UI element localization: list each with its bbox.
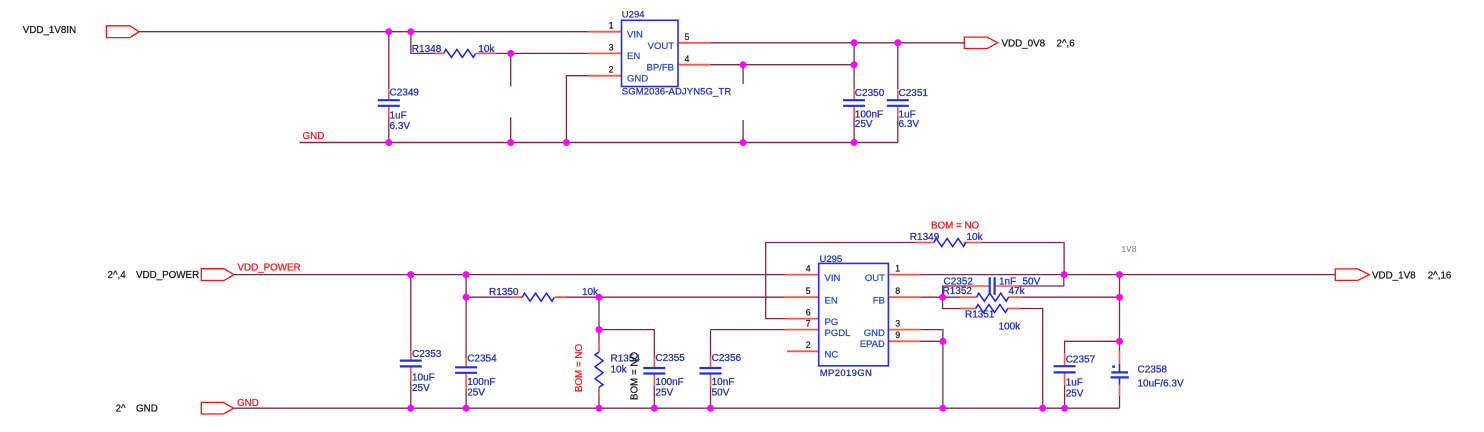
svg-text:C2349: C2349 [390,87,420,98]
wire VOUT to port [710,42,964,44]
junction hidden cap bottom on GND rail [507,139,514,146]
junction EPAD wire on GND rail [939,405,946,412]
svg-text:C2352: C2352 [944,276,974,287]
port VDD_0V8 [964,37,997,48]
svg-text:2^,6: 2^,6 [1057,39,1076,50]
svg-text:U295: U295 [820,254,843,265]
pin 9 stub U295 [888,340,919,342]
wire R1352 to output column [1022,296,1120,298]
capacitor C2357 [1054,353,1096,408]
junction FB node [939,294,946,301]
svg-text:GND: GND [237,398,259,409]
resistor R1354 [595,330,640,409]
junction R1354 bottom on GND rail [596,405,603,412]
svg-text:C2356: C2356 [712,353,742,364]
svg-text:25V: 25V [855,119,873,130]
svg-text:VOUT: VOUT [648,41,675,52]
junction R1351 wire on GND rail [1039,405,1046,412]
junction C2355 bottom on GND rail [651,405,658,412]
svg-text:5: 5 [806,286,811,296]
svg-text:R1350: R1350 [489,287,519,298]
svg-text:6.3V: 6.3V [390,121,411,132]
wire C2351 column [897,43,899,143]
junction C2356 bottom on GND rail [707,405,714,412]
svg-text:NC: NC [825,350,839,361]
junction C2353 bottom on GND rail [407,405,414,412]
pin 8 stub U295 [888,296,921,298]
svg-text:C2351: C2351 [899,88,929,99]
svg-text:25V: 25V [467,387,485,398]
pin 3 stub U294 [589,52,622,54]
svg-text:10k: 10k [967,232,984,243]
svg-text:R1351: R1351 [965,310,995,321]
wire VDD_POWER to U295 VIN [234,274,785,276]
svg-text:BP/FB: BP/FB [647,63,674,74]
svg-text:C2353: C2353 [412,349,442,360]
svg-text:EPAD: EPAD [860,339,885,350]
svg-text:C2357: C2357 [1066,354,1096,365]
junction hidden cap 2 bottom on GND rail [740,139,747,146]
svg-text:1uF: 1uF [390,110,407,121]
junction GND EPAD node [939,338,946,345]
wire OUT to port VDD_1V8 [921,274,1335,276]
wire C2356 column [710,330,712,409]
svg-text:GND: GND [864,328,885,339]
wire branch down to R1348 [411,32,435,54]
wire C2350 column [853,65,855,143]
wire R1350 to EN pin [599,296,785,298]
svg-text:50V: 50V [712,387,730,398]
svg-text:6.3V: 6.3V [899,119,920,130]
svg-text:PGDL: PGDL [825,328,851,339]
svg-text:BOM = NO: BOM = NO [931,221,980,232]
junction on BP/FB net at hidden cap branch [740,61,747,68]
svg-text:VDD_1V8IN: VDD_1V8IN [23,25,76,36]
svg-text:VIN: VIN [825,273,841,284]
wire EPAD node to rail [920,341,943,408]
resistor R1350 [466,287,599,301]
wire gapped vertical below BP/FB [742,65,744,143]
svg-text:1: 1 [895,263,900,273]
svg-text:VDD_POWER: VDD_POWER [238,262,301,273]
svg-text:10k: 10k [611,365,628,376]
svg-text:2^: 2^ [116,404,126,415]
resistor R1348 [412,44,496,58]
wire C2356 to PGDL [711,329,786,331]
svg-text:VIN: VIN [627,29,643,40]
junction R1350 output on EN net [596,294,603,301]
pin 7 stub U295 [785,329,818,331]
wire PG riser to R1349 [766,243,916,319]
capacitor C2354 [455,354,497,399]
svg-text:R1348: R1348 [412,44,442,55]
junction C2349 bottom on GND rail [385,139,392,146]
svg-text:7: 7 [806,318,811,328]
pin 1 stub U294 [589,31,622,33]
junction at C2351 top on VOUT net [894,39,901,46]
capacitor C2352 [943,275,1064,298]
wire R1349 to OUT node [982,243,1064,275]
op-amp U294 body [622,20,679,86]
junction at R1348 output on EN net [507,50,514,57]
svg-text:BOM = NO: BOM = NO [630,352,641,401]
svg-text:C2355: C2355 [655,353,685,364]
resistor R1349 [910,232,984,247]
svg-text:1uF: 1uF [1066,378,1083,389]
ground rail bottom [234,407,1120,409]
svg-text:3: 3 [609,42,614,52]
svg-text:FB: FB [873,296,885,307]
wire output branch to C2357 [1065,341,1120,353]
wire C2353 column [410,275,412,409]
svg-text:R1352: R1352 [943,286,973,297]
svg-text:R1349: R1349 [910,232,940,243]
wire C2354 column [465,275,467,409]
svg-text:10k: 10k [478,44,495,55]
pin 3 stub U295 [888,329,921,331]
svg-text:GND: GND [136,404,158,415]
svg-text:EN: EN [627,51,640,62]
regulator U295 body [819,263,889,365]
svg-text:2: 2 [806,340,811,350]
svg-text:1V8: 1V8 [1121,245,1137,255]
junction U294 GND pin wire on GND rail [563,139,570,146]
svg-text:BOM = NO: BOM = NO [574,344,585,393]
svg-text:VDD_POWER: VDD_POWER [136,270,199,281]
svg-text:5: 5 [685,32,690,42]
junction VOUT to BP/FB tie [851,39,858,46]
capacitor C2349 [378,87,420,132]
wire output column [1119,275,1121,351]
svg-text:C2358: C2358 [1138,365,1168,376]
svg-text:6: 6 [806,307,811,317]
capacitor C2355 [643,353,685,408]
svg-text:MP2019GN: MP2019GN [820,368,872,379]
svg-text:OUT: OUT [865,273,885,284]
svg-text:EN: EN [825,296,838,307]
pin 2 stub U295 (NC) [787,350,819,352]
wire to C2355 [599,330,654,357]
resistor R1352 [943,286,1026,301]
svg-text:VDD_0V8: VDD_0V8 [1002,39,1046,50]
svg-text:9: 9 [895,330,900,340]
svg-text:10uF: 10uF [412,373,435,384]
svg-text:10uF/6.3V: 10uF/6.3V [1138,378,1184,389]
junction R1350 tap on C2354 column [463,294,470,301]
svg-text:1: 1 [609,21,614,31]
capacitor C2358 (polarized) [1111,351,1184,408]
pin 5 stub U294 [678,42,710,44]
svg-text:2^,4: 2^,4 [108,270,127,281]
port VDD_POWER [201,269,234,281]
junction R1352 right on output column [1116,294,1123,301]
svg-text:2^,16: 2^,16 [1428,270,1452,281]
svg-text:47k: 47k [1009,286,1026,297]
junction at C2353 top on VDD_POWER net [407,271,414,278]
wire C2349 column [388,32,390,90]
junction at C2354 top on VDD_POWER net [463,271,470,278]
svg-text:C2354: C2354 [467,354,497,365]
svg-text:2: 2 [609,65,614,75]
svg-text:SGM2036-ADJYN5G_TR: SGM2036-ADJYN5G_TR [622,87,732,98]
port VDD_1V8 [1335,269,1369,281]
svg-text:C2350: C2350 [855,88,885,99]
wire R1351 to ground rail [1019,309,1042,409]
wire GND pin3 to EPAD node [921,330,943,342]
svg-text:PG: PG [825,317,839,328]
port VDD_1V8IN [106,26,139,38]
svg-text:4: 4 [685,54,690,64]
pin 4 stub U294 [678,64,710,66]
wire EN node down [598,297,600,329]
resistor R1351 [943,297,1022,333]
junction C2350 bottom on GND rail [851,139,858,146]
svg-text:25V: 25V [655,387,673,398]
junction at R1348 branch on VDD_1V8IN net [407,28,414,35]
pin 4 stub U295 [785,274,818,276]
svg-text:25V: 25V [412,383,430,394]
pin 5 stub U295 [785,296,818,298]
wire gapped vertical below R1348 [510,53,512,142]
svg-text:3: 3 [895,318,900,328]
junction R1354 C2355 branch node [596,326,603,333]
capacitor C2356 [700,353,742,399]
svg-text:GND: GND [303,131,325,142]
pin 6 stub U295 [785,318,818,320]
svg-text:4: 4 [806,263,811,273]
svg-text:100nF: 100nF [467,377,495,388]
svg-text:100k: 100k [999,322,1022,333]
pin 1 stub U295 [888,274,921,276]
svg-text:8: 8 [895,286,900,296]
port GND [201,402,233,414]
capacitor C2350 [843,88,885,130]
svg-text:VDD_1V8: VDD_1V8 [1372,270,1416,281]
ground rail top [300,142,898,144]
capacitor C2351 [887,88,929,130]
svg-text:U294: U294 [622,10,645,21]
wire VDD_1V8IN to U294 VIN [139,31,588,33]
svg-text:GND: GND [627,73,648,84]
junction C2357 branch on output column [1116,338,1123,345]
capacitor C2353 [400,349,442,394]
wire BP/FB row [710,43,854,65]
wire FB stub to node [921,296,943,298]
junction output column top on OUT net [1116,271,1123,278]
junction C2354 bottom on GND rail [463,405,470,412]
svg-text:25V: 25V [1066,389,1084,400]
junction at C2350 top on BP/FB net [851,61,858,68]
junction C2357 bottom on GND rail [1061,405,1068,412]
pin 2 stub U294 [589,75,622,77]
wire R1348 to EN pin [496,52,588,54]
junction at C2349 top on VDD_1V8IN net [385,28,392,35]
wire GND pin2 to rail [566,76,588,143]
junction R1349 C2352 on OUT net [1061,271,1068,278]
